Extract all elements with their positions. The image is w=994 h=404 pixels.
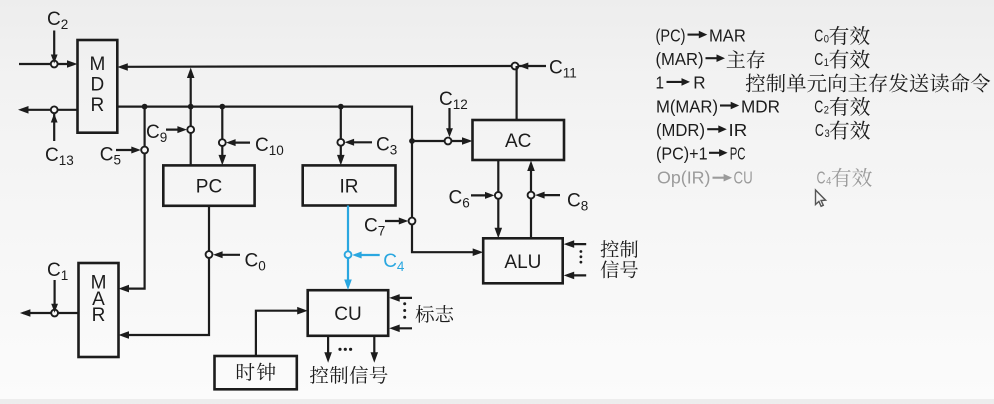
CU output dots xyxy=(338,348,341,351)
control point C7 xyxy=(409,218,416,225)
wire bus down through C5 to MAR xyxy=(123,107,145,289)
svg-text:C7: C7 xyxy=(364,216,385,239)
svg-text:C3: C3 xyxy=(376,135,397,158)
svg-text:C11: C11 xyxy=(549,58,577,81)
svg-text:R: R xyxy=(91,95,105,116)
svg-text:D: D xyxy=(91,75,105,96)
wire ALU up to AC xyxy=(530,164,532,238)
control point C8 xyxy=(528,192,535,199)
svg-text:C2: C2 xyxy=(47,9,68,32)
label flags 标志 xyxy=(416,305,454,323)
ALU xyxy=(483,238,563,283)
svg-text:C: C xyxy=(814,25,823,45)
wire C3 stub xyxy=(348,141,372,143)
wire AC down to ALU xyxy=(497,160,499,234)
wire C4 stub xyxy=(356,254,380,256)
svg-text:C5: C5 xyxy=(100,145,121,168)
wire AC output up to bus xyxy=(515,66,517,120)
svg-text:C: C xyxy=(817,167,826,187)
line 3 note 控制单元向主存发送读命令 xyxy=(746,73,990,92)
control point C11 xyxy=(512,63,519,70)
svg-text:C1: C1 xyxy=(47,260,68,283)
svg-text:C6: C6 xyxy=(449,188,470,211)
svg-text:IR: IR xyxy=(340,176,359,197)
wire C1 drop xyxy=(53,280,55,310)
svg-text:C13: C13 xyxy=(45,145,74,168)
junction bus to PC xyxy=(219,104,225,110)
control point C10 xyxy=(219,139,226,146)
wire MAR out to memory address xyxy=(23,312,79,314)
wire C2 drop xyxy=(53,31,55,61)
wire PC up to top bus xyxy=(190,71,192,165)
wire bus down into IR xyxy=(340,107,342,161)
control point C13 xyxy=(51,106,58,113)
svg-text:(MAR): (MAR) xyxy=(656,49,704,69)
wire IR down to CU (C4 cyan) xyxy=(347,206,349,286)
wire C7 stub xyxy=(385,220,405,222)
register IR xyxy=(303,165,396,205)
svg-text:4: 4 xyxy=(826,175,831,187)
flag vertical dots xyxy=(403,302,406,305)
svg-text:M(MAR): M(MAR) xyxy=(656,96,718,116)
wire C0 stub xyxy=(217,254,241,256)
wire C8 stub xyxy=(539,194,561,196)
svg-text:C4: C4 xyxy=(383,251,405,274)
ALU control input arrows xyxy=(567,243,586,245)
wire MDR out to memory xyxy=(21,109,78,111)
wire branch into AC xyxy=(412,140,468,142)
wire PC down through C0 to MAR xyxy=(123,206,210,335)
register MAR xyxy=(79,263,119,357)
svg-text:PC: PC xyxy=(730,144,746,164)
svg-text:C10: C10 xyxy=(255,135,284,158)
wire C13 rise xyxy=(53,114,55,141)
svg-text:C: C xyxy=(814,49,823,69)
svg-text:1: 1 xyxy=(656,73,665,93)
svg-text:(PC): (PC) xyxy=(656,25,686,45)
svg-text:MDR: MDR xyxy=(741,96,780,116)
label clock 时钟 xyxy=(237,363,275,381)
svg-text:C9: C9 xyxy=(146,122,167,145)
svg-text:2: 2 xyxy=(824,104,829,116)
wire bus down into PC xyxy=(221,107,223,161)
control point C4 xyxy=(345,251,352,258)
control point C12 xyxy=(445,138,452,145)
wire memory data into MDR xyxy=(19,63,74,65)
svg-text:CU: CU xyxy=(734,167,753,187)
top internal bus into MDR xyxy=(121,65,515,68)
svg-text:(PC)+1: (PC)+1 xyxy=(656,144,708,164)
lower internal bus from MDR xyxy=(117,107,479,253)
svg-text:M: M xyxy=(89,54,105,75)
control point C1 xyxy=(51,310,58,317)
svg-text:3: 3 xyxy=(825,128,830,140)
label control signals 控制信号 xyxy=(310,366,388,384)
wire C5 stub xyxy=(116,149,137,151)
junction bus to IR xyxy=(338,104,344,110)
svg-text:AC: AC xyxy=(505,131,531,152)
svg-text:CU: CU xyxy=(334,304,361,325)
wire clock to CU xyxy=(256,311,304,356)
junction PC up line xyxy=(188,104,194,110)
svg-text:Op(IR): Op(IR) xyxy=(657,167,711,187)
control point C5 xyxy=(141,147,148,154)
control point C3 xyxy=(337,139,344,146)
svg-text:(MDR): (MDR) xyxy=(656,120,705,140)
control unit CU xyxy=(308,290,389,336)
clock box xyxy=(215,356,297,389)
CU output arrows xyxy=(327,336,329,359)
svg-text:R: R xyxy=(92,305,106,326)
svg-text:C12: C12 xyxy=(439,89,468,112)
ALU control dots xyxy=(580,250,583,253)
svg-text:0: 0 xyxy=(824,33,829,45)
junction branch to AC xyxy=(409,138,415,144)
svg-text:PC: PC xyxy=(196,177,222,198)
control point C0 xyxy=(206,251,213,258)
label 信号 xyxy=(601,260,638,278)
svg-text:C8: C8 xyxy=(567,191,588,214)
register AC xyxy=(473,120,565,160)
svg-text:C: C xyxy=(814,96,823,116)
wire C12 drop xyxy=(448,108,450,134)
register PC xyxy=(163,165,254,205)
mouse cursor xyxy=(816,190,826,206)
CU flag input arrows xyxy=(393,297,413,299)
svg-text:C: C xyxy=(815,120,824,140)
wire C9 stub xyxy=(166,129,183,131)
svg-text:MAR: MAR xyxy=(709,25,746,45)
control point C2 xyxy=(51,61,58,68)
wire C6 stub xyxy=(471,194,491,196)
register MDR xyxy=(78,40,118,133)
svg-text:1: 1 xyxy=(824,57,829,69)
control point C9 xyxy=(187,126,194,133)
wire C10 stub xyxy=(230,142,251,144)
control point C6 xyxy=(495,192,502,199)
svg-text:ALU: ALU xyxy=(504,252,541,273)
junction on bus at C5 branch xyxy=(142,104,148,110)
svg-text:C0: C0 xyxy=(245,251,266,274)
svg-text:R: R xyxy=(693,73,705,93)
label 控制 xyxy=(601,240,638,258)
wire C11 stub xyxy=(519,65,546,67)
svg-text:IR: IR xyxy=(729,120,748,140)
